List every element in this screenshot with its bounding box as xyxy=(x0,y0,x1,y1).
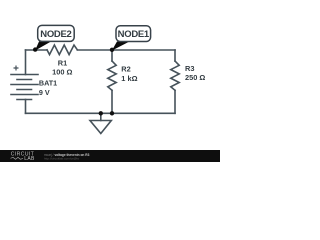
svg-text:100 Ω: 100 Ω xyxy=(52,67,72,76)
svg-text:R2: R2 xyxy=(121,65,130,74)
svg-text:LAB: LAB xyxy=(24,156,35,162)
svg-text:9 V: 9 V xyxy=(39,88,50,97)
svg-text:http://circuitlab.com/cej3kv: http://circuitlab.com/cej3kv xyxy=(44,157,80,161)
svg-text:R3: R3 xyxy=(185,64,194,73)
svg-text:R1: R1 xyxy=(58,59,67,68)
svg-text:NODE1: NODE1 xyxy=(118,29,150,40)
svg-text:250 Ω: 250 Ω xyxy=(185,73,205,82)
svg-text:BAT1: BAT1 xyxy=(39,79,57,88)
svg-text:1 kΩ: 1 kΩ xyxy=(121,74,137,83)
svg-text:NODE2: NODE2 xyxy=(40,29,71,40)
